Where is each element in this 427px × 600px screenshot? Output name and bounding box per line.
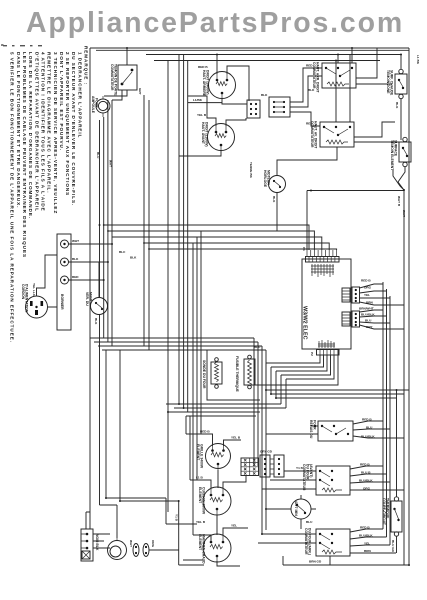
- wire top bus 2: [146, 54, 401, 56]
- svg-text:DROIT (1200W): DROIT (1200W): [205, 122, 209, 147]
- svg-text:ORG: ORG: [363, 487, 371, 491]
- svg-text:YEL B: YEL B: [196, 520, 206, 524]
- svg-text:BLK: BLK: [308, 88, 315, 92]
- svg-text:WHT: WHT: [109, 160, 113, 167]
- connector oval A: [129, 540, 139, 557]
- svg-text:ELEMENT: ELEMENT: [196, 444, 200, 461]
- wire left hbus: [166, 404, 286, 512]
- svg-text:YEL: YEL: [364, 542, 370, 546]
- svg-text:SURFACE: SURFACE: [394, 140, 398, 157]
- clock motor M2: [85, 292, 108, 325]
- note line 1b: [71, 52, 76, 206]
- svg-text:1 DEBRANCHER L'APPAREIL: 1 DEBRANCHER L'APPAREIL: [77, 52, 82, 138]
- wire terminal leads: [69, 239, 113, 280]
- svg-text:P2: P2: [310, 352, 314, 356]
- wire CN2 to switch: [290, 68, 322, 126]
- svg-text:RED B: RED B: [198, 65, 208, 69]
- wire breaker leads: [396, 390, 398, 553]
- svg-text:FOUR: FOUR: [95, 98, 99, 108]
- oven sensor RT1: [202, 358, 222, 389]
- wire warm leads: [193, 528, 248, 566]
- wire top bus 3: [154, 60, 380, 62]
- svg-text:RED B: RED B: [200, 430, 210, 434]
- wire lamp feeders: [100, 100, 113, 346]
- svg-text:SURF. CHAUDE: SURF. CHAUDE: [390, 70, 394, 96]
- wire element E-RF leads: [179, 96, 246, 156]
- svg-text:COMMUTATEUR: COMMUTATEUR: [304, 528, 308, 555]
- wire SW3 fanout: [262, 463, 404, 491]
- connector P2: [310, 350, 339, 357]
- indicator lamp PL1: [386, 69, 407, 109]
- wire label BLU: [96, 152, 100, 159]
- wire long verticals mid: [168, 55, 188, 413]
- svg-text:BLK: BLK: [272, 196, 276, 203]
- wire SW1 to bus: [338, 48, 392, 84]
- wire label BLC: [119, 250, 137, 260]
- registration marks: [3, 45, 42, 46]
- svg-text:YEL: YEL: [364, 293, 370, 297]
- svg-text:5 VERIFIER LE BON FONCTIONNEM: 5 VERIFIER LE BON FONCTIONNEMENT DE L'AP…: [10, 52, 15, 343]
- svg-text:AppliancePartsPros.com: AppliancePartsPros.com: [26, 7, 404, 39]
- svg-text:3 TECHNICIEN DE SERVICE APRES: 3 TECHNICIEN DE SERVICE APRES-VENTE, VEU…: [53, 52, 58, 214]
- svg-text:DU SECTEUR AVANT D'ENLEVER LE: DU SECTEUR AVANT D'ENLEVER LE COUVRE-FIL…: [71, 52, 76, 206]
- wire label YEL B feed: [196, 520, 206, 524]
- svg-text:TEMOIN ELEMENT: TEMOIN ELEMENT: [390, 140, 394, 171]
- oven switch SW4: [304, 528, 350, 556]
- wire oven feed bus: [149, 498, 204, 565]
- power terminal block TB1: [57, 234, 71, 330]
- svg-text:GRY: GRY: [366, 325, 374, 329]
- wire right short verticals: [383, 282, 390, 545]
- vent motor M1: [263, 170, 286, 203]
- svg-text:ORG: ORG: [364, 286, 372, 290]
- wire left frame bus: [89, 48, 91, 505]
- timer motor M4: [291, 499, 313, 524]
- svg-text:CUISSON 2500W: CUISSON 2500W: [202, 487, 206, 515]
- wire label L1 BK: [416, 55, 420, 65]
- infinite switch SW2: [306, 121, 354, 149]
- wire left mid verticals: [144, 95, 149, 350]
- wire P2 exits: [254, 349, 339, 466]
- wire motor leads: [277, 147, 337, 231]
- note line 4d: [22, 52, 27, 258]
- svg-text:WHT: WHT: [72, 239, 79, 243]
- svg-text:COMMUTATEUR: COMMUTATEUR: [312, 62, 316, 89]
- svg-text:BLU: BLU: [366, 426, 373, 430]
- svg-text:D'ALIMENTATION: D'ALIMENTATION: [25, 284, 29, 313]
- wire TB2 leads: [86, 505, 110, 548]
- svg-text:2 SE REPORTER UNIQUEMENT AUX: 2 SE REPORTER UNIQUEMENT AUX FONCTIONS: [65, 52, 70, 196]
- svg-text:4177 MIN: 4177 MIN: [294, 501, 298, 516]
- relay K1: [309, 420, 353, 441]
- indicator lamp PL2: [390, 137, 411, 171]
- connector CN6: [260, 450, 273, 478]
- wire PL1 leads: [400, 55, 402, 141]
- thermal breaker CB1: [382, 497, 402, 553]
- svg-text:YEL: YEL: [231, 524, 237, 528]
- svg-text:BLC: BLC: [119, 250, 126, 254]
- note line 4e: [16, 52, 21, 208]
- svg-text:BLU/BLK: BLU/BLK: [361, 313, 375, 317]
- note line 4b: [34, 52, 39, 212]
- svg-text:YEL LLA: YEL LLA: [32, 283, 36, 297]
- svg-text:HORLOGE: HORLOGE: [263, 170, 267, 188]
- svg-text:BLU: BLU: [365, 319, 372, 323]
- wire mid horizontal: [307, 191, 404, 251]
- wire door switch to L1: [104, 48, 127, 100]
- svg-text:LES PROBLEMES DE CABLAGE PEUVE: LES PROBLEMES DE CABLAGE PEUVENT ENTRAIN…: [22, 52, 27, 258]
- svg-text:W3/W2 ELEC: W3/W2 ELEC: [302, 306, 308, 340]
- wire plug leads: [37, 255, 58, 307]
- wire label H bus: [175, 514, 179, 522]
- svg-text:WHT: WHT: [129, 540, 133, 547]
- svg-text:VER. DU: VER. DU: [85, 292, 89, 306]
- wire timer leads: [266, 495, 316, 529]
- infinite switch SW1: [306, 62, 356, 94]
- svg-text:ORG: ORG: [151, 540, 155, 548]
- svg-text:Y1 B: Y1 B: [296, 466, 304, 470]
- wire left feeders bottom: [100, 350, 179, 538]
- svg-text:HAUT. ARRIERE: HAUT. ARRIERE: [202, 70, 206, 97]
- connector CN3 fanout: [342, 279, 404, 306]
- svg-text:BLK: BLK: [130, 256, 137, 260]
- svg-text:L1 B: L1 B: [196, 476, 203, 480]
- svg-text:REMETTRE LE DIAGRAMME AVEC L'A: REMETTRE LE DIAGRAMME AVEC L'APPAREIL.: [47, 52, 52, 194]
- bottom terminal block TB2: [81, 529, 99, 561]
- svg-text:LORS DE LA REPARATION D'ORGANE: LORS DE LA REPARATION D'ORGANES DE COMMA…: [28, 52, 33, 219]
- wire SW2 to bus: [336, 55, 399, 143]
- svg-text:AMPOULE: AMPOULE: [91, 96, 95, 114]
- oven element warm: [198, 524, 237, 565]
- svg-text:MOTEUR: MOTEUR: [267, 170, 271, 185]
- svg-text:DU FOUR: DU FOUR: [306, 464, 310, 480]
- svg-text:ELEMENT: ELEMENT: [198, 487, 202, 504]
- connector CN7: [270, 455, 284, 477]
- wire ribbon to P1: [104, 225, 337, 535]
- svg-text:SONDE DU FOUR: SONDE DU FOUR: [202, 360, 206, 389]
- wire relay fanout: [266, 418, 404, 439]
- svg-text:BLK: BLK: [261, 93, 268, 97]
- svg-text:YEL B: YEL B: [197, 113, 207, 117]
- svg-text:DROIT (2400W): DROIT (2400W): [206, 70, 210, 95]
- surface element E-RF: [197, 113, 235, 151]
- svg-text:BRN: BRN: [364, 549, 371, 553]
- connector P1: [302, 247, 339, 262]
- svg-text:RED B: RED B: [362, 418, 372, 422]
- P2 fan blob: [318, 340, 335, 348]
- svg-text:4 ATTENTION ! IDENTIFIER TOUS: 4 ATTENTION ! IDENTIFIER TOUS LES FILS A…: [41, 52, 46, 212]
- svg-text:YEL B: YEL B: [231, 436, 241, 440]
- note line 4a: [41, 52, 46, 212]
- svg-text:FOUR: FOUR: [313, 420, 317, 430]
- door switch S1: [110, 64, 142, 96]
- svg-text:BLK: BLK: [94, 318, 98, 325]
- svg-text:BLU/BLK: BLU/BLK: [361, 435, 375, 439]
- svg-text:BLU: BLU: [96, 152, 100, 159]
- note line 4c: [28, 52, 33, 219]
- oven element bake: [196, 476, 231, 516]
- oven element broil: [196, 430, 241, 471]
- svg-text:TEMOIN DE PORTE: TEMOIN DE PORTE: [114, 64, 118, 96]
- svg-text:BORNIER: BORNIER: [60, 294, 64, 310]
- wire right hbus: [266, 390, 409, 398]
- oven lamp DS1: [91, 96, 110, 117]
- svg-text:BRN GD: BRN GD: [309, 560, 322, 564]
- svg-text:RED: RED: [306, 64, 313, 68]
- oven switch SW3: [302, 464, 350, 495]
- svg-text:RED B: RED B: [360, 463, 370, 467]
- svg-text:GRY GD: GRY GD: [260, 450, 273, 454]
- svg-text:RED B: RED B: [360, 526, 370, 530]
- svg-text:L1/BK: L1/BK: [193, 98, 203, 102]
- svg-text:GRILLE 3400W: GRILLE 3400W: [200, 444, 204, 469]
- wire label WHT: [109, 160, 113, 167]
- svg-text:BLU: BLU: [254, 345, 261, 349]
- svg-text:WHT B: WHT B: [397, 196, 401, 207]
- note line 3b: [47, 52, 52, 194]
- svg-text:D'ETIQUETTES AVANT DE DEBRANCH: D'ETIQUETTES AVANT DE DEBRANCHER L'APPAR…: [34, 52, 39, 212]
- svg-text:RELAIS DU: RELAIS DU: [309, 420, 313, 439]
- svg-text:Y1 B: Y1 B: [175, 514, 179, 522]
- sensor box: [207, 350, 260, 400]
- wire L1 top bus: [90, 48, 409, 50]
- wire SW4 fanout: [258, 526, 396, 566]
- svg-text:ELEMENT: ELEMENT: [198, 534, 202, 551]
- header logo text: [26, 7, 404, 39]
- connector CN4 fanout: [342, 307, 404, 330]
- svg-text:WHT: WHT: [402, 210, 406, 217]
- svg-text:GRY: GRY: [138, 88, 142, 96]
- svg-text:RED: RED: [72, 275, 79, 279]
- thermal fuse RT2: [235, 345, 261, 393]
- wire clock motor leads: [98, 262, 101, 505]
- svg-text:CORDON: CORDON: [21, 284, 25, 300]
- note line 2b: [59, 52, 64, 151]
- svg-text:TEMOIN ZONE: TEMOIN ZONE: [386, 70, 390, 94]
- wire right frame bus L2: [408, 48, 410, 565]
- svg-text:MANT: MANT: [89, 292, 93, 303]
- svg-text:DONT L'APPAREIL EST POURVU.: DONT L'APPAREIL EST POURVU.: [59, 52, 64, 151]
- svg-text:BLU/BLK: BLU/BLK: [359, 479, 373, 483]
- svg-text:HAUT. AV. DROIT: HAUT. AV. DROIT: [314, 121, 318, 149]
- connector CN1: [247, 100, 260, 118]
- svg-text:BLK: BLK: [395, 102, 399, 109]
- surface element E-RR: [198, 65, 236, 99]
- page mark: [0, 44, 4, 46]
- power cord plug P0: [21, 283, 48, 318]
- svg-text:REMARQUE :: REMARQUE :: [84, 46, 89, 85]
- svg-text:BRN: BRN: [366, 301, 373, 305]
- svg-text:P1: P1: [302, 247, 306, 251]
- svg-text:HAUT. ARR. DROIT: HAUT. ARR. DROIT: [316, 62, 320, 94]
- cord plug symbol: [108, 532, 127, 560]
- P1 fan blob: [311, 264, 334, 277]
- svg-text:BLU GD: BLU GD: [391, 540, 395, 553]
- connector CN5 grid: [241, 458, 259, 476]
- svg-text:BLU: BLU: [306, 520, 313, 524]
- svg-text:FUSIBLE THERMIQUE: FUSIBLE THERMIQUE: [235, 356, 239, 393]
- svg-text:RED B: RED B: [361, 279, 371, 283]
- note line 3a: [53, 52, 58, 214]
- svg-text:BRN/WHT: BRN/WHT: [359, 307, 374, 311]
- svg-text:BLU/BLK: BLU/BLK: [359, 534, 373, 538]
- svg-text:TERRE BK: TERRE BK: [249, 162, 253, 179]
- connector oval B: [143, 540, 155, 557]
- svg-text:RED: RED: [306, 122, 313, 126]
- wire mid bundle: [90, 338, 266, 534]
- svg-text:COMMUTATEUR: COMMUTATEUR: [110, 64, 114, 91]
- svg-text:BLK: BLK: [72, 257, 79, 261]
- wire broil leads: [186, 434, 241, 488]
- note line 5: [10, 52, 15, 343]
- note title REMARQUE: [84, 46, 89, 85]
- svg-text:L1 BK: L1 BK: [416, 55, 420, 65]
- svg-text:BLU B: BLU B: [361, 471, 371, 475]
- wire label TERRE: [249, 162, 253, 179]
- note line 1a: [77, 52, 82, 138]
- note line 2a: [65, 52, 70, 196]
- wire merge junction: [393, 167, 406, 565]
- svg-text:HAUT. AVANT: HAUT. AVANT: [201, 122, 205, 145]
- wire bottom bus: [283, 556, 409, 565]
- svg-text:DU FOUR (ARR.): DU FOUR (ARR.): [308, 528, 312, 555]
- wire element E-RR leads: [188, 55, 249, 105]
- svg-text:DANS LE FONCTIONNEMENT ET ETRE: DANS LE FONCTIONNEMENT ET ETRE DANGEREUX…: [16, 52, 21, 208]
- connector CN2: [261, 93, 290, 117]
- control board A1: [302, 259, 352, 349]
- wire bake leads: [190, 476, 246, 535]
